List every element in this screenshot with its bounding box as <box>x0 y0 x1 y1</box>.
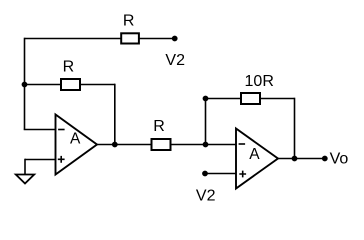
svg-text:A: A <box>70 131 81 148</box>
svg-text:Vo: Vo <box>330 151 349 168</box>
terminal node V2 bottom <box>202 171 208 177</box>
wire R2 to right corner <box>80 84 115 86</box>
wire R3 to U2 inverting input <box>171 144 237 146</box>
svg-text:R: R <box>123 13 135 30</box>
resistor R1 <box>121 33 139 43</box>
wire U2 output to Vo terminal <box>278 158 325 160</box>
svg-text:A: A <box>249 146 260 163</box>
wire R1 to V2 terminal <box>139 38 175 40</box>
op-amp U1 <box>56 115 98 175</box>
wire feedback vertical left <box>205 99 207 145</box>
op-amp U2 <box>236 129 278 189</box>
terminal node Vo <box>322 156 328 162</box>
wire top horizontal to R1 <box>25 38 122 40</box>
junction node U2 inverting input <box>203 142 209 148</box>
junction node U2 output <box>292 156 298 162</box>
junction node left <box>22 82 28 88</box>
op-amp U2 minus sign <box>239 143 246 145</box>
resistor R3 <box>152 139 171 150</box>
wire U1 output to R3 <box>97 144 152 146</box>
svg-text:V2: V2 <box>165 52 185 69</box>
junction node U1 output <box>112 142 118 148</box>
ground <box>16 175 34 184</box>
op-amp U1 plus sign <box>58 156 65 163</box>
wire feedback vertical right <box>294 98 296 159</box>
terminal node V2 top <box>172 36 178 42</box>
wire node to R2 <box>25 84 62 86</box>
wire V2 terminal to non-inverting input U2 <box>205 173 236 175</box>
wire vertical R2 right down to output node <box>114 84 116 145</box>
svg-text:R: R <box>63 58 75 75</box>
wire feedback top to R4 <box>206 98 242 100</box>
wire inverting input U1 <box>24 129 56 131</box>
wire to ground <box>24 159 26 175</box>
wire non-inverting input U1 <box>25 159 56 161</box>
op-amp U1 minus sign <box>58 129 65 131</box>
resistor R4 <box>241 93 260 104</box>
junction node feedback top <box>203 96 209 102</box>
svg-text:R: R <box>153 118 165 135</box>
svg-text:V2: V2 <box>196 187 216 204</box>
wire R4 to right corner <box>260 98 295 100</box>
wire left vertical <box>24 38 26 130</box>
resistor R2 <box>61 79 80 90</box>
op-amp U2 plus sign <box>239 171 246 178</box>
svg-text:10R: 10R <box>245 73 274 90</box>
